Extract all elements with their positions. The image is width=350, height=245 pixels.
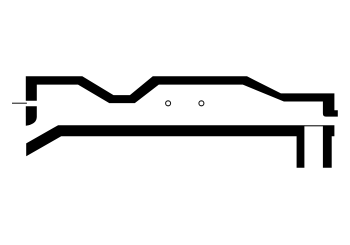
screw hole right (199, 101, 204, 106)
upper board profile outline (top band with dip, right step and hook foot) (26, 76, 338, 116)
lower rail right block with leg (323, 125, 335, 168)
left edge lower lip (below groove) (26, 106, 37, 125)
lower rail band with left slope and hanging leg (26, 125, 304, 168)
thin top surface line across clip window (304, 125, 323, 126)
screw hole left (166, 101, 171, 106)
spline / fastener tongue line at left groove (12, 103, 27, 104)
